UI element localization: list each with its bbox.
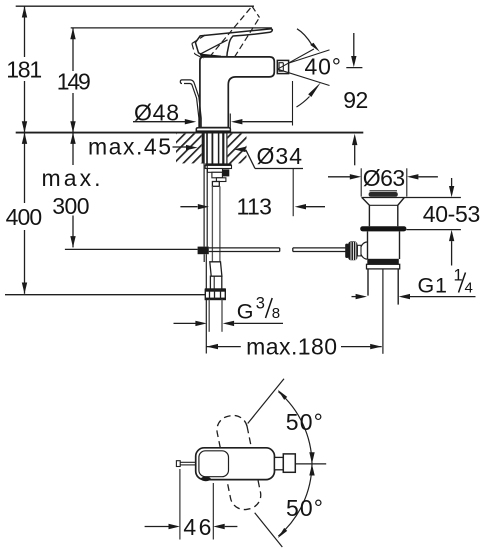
50deg lower arc + arrows	[278, 464, 312, 536]
G3/8 dimension arrows	[174, 322, 197, 324]
max.300 bottom arrow	[70, 236, 75, 247]
svg-text:G1: G1	[418, 273, 448, 297]
113 right extension line (spout tip projection)	[292, 81, 294, 126]
pop-up rod below deck	[203, 133, 205, 247]
40 degree lower arc + arrow	[297, 97, 310, 108]
dimension 46	[179, 469, 181, 540]
50deg upper ray	[248, 379, 284, 424]
40 degree upper arc + arrow	[297, 29, 312, 45]
top reference line (181 level)	[16, 5, 254, 7]
dark blob at body bottom-left	[201, 477, 211, 482]
40-53 lower reference line	[406, 229, 461, 231]
cross fitting on rod	[198, 247, 209, 255]
400 top arrow (up onto deck)	[22, 133, 27, 144]
svg-text:149: 149	[57, 69, 91, 95]
drain body below gasket	[367, 231, 369, 259]
svg-text:4: 4	[465, 280, 473, 297]
deck / mounting surface line	[16, 132, 364, 134]
dimension 181 vertical line	[24, 6, 26, 57]
dimension 149 vertical line	[72, 28, 74, 71]
149 top arrow	[70, 28, 75, 39]
pop-up rod top view	[176, 461, 180, 467]
dashed lever (raised position)	[192, 6, 260, 58]
svg-text:40°: 40°	[305, 54, 342, 80]
G3/8 nut	[205, 289, 225, 299]
drain neck trapezoid	[362, 198, 404, 227]
dimension 92	[346, 67, 362, 69]
spout block	[277, 60, 288, 73]
neck to spout	[275, 457, 284, 469]
svg-text:92: 92	[343, 87, 368, 113]
drain gasket (black)	[360, 226, 406, 231]
top-view body	[196, 448, 275, 480]
ball joint bulge on drain wall	[360, 242, 367, 259]
dimension max.300 vertical line	[72, 133, 74, 165]
svg-text:181: 181	[6, 56, 42, 82]
181 top arrow	[22, 6, 27, 17]
max.45 leader arrow	[186, 145, 198, 150]
149 bottom arrow	[70, 121, 75, 132]
50deg lower ray	[255, 513, 283, 547]
inner contour	[199, 451, 229, 477]
svg-text:40-53: 40-53	[423, 201, 481, 227]
G1 1/4 dimension arrows	[352, 296, 357, 298]
dimension 40-53	[451, 178, 453, 186]
svg-text:Ø63: Ø63	[363, 165, 406, 191]
svg-text:1: 1	[454, 267, 463, 285]
shank threaded bars between deck	[203, 133, 227, 164]
svg-text:max.45: max.45	[88, 134, 171, 160]
faucet body outline	[200, 57, 274, 128]
hatched deck section left of shank	[176, 134, 202, 164]
rod tail below cross / extension to max.180	[205, 254, 207, 353]
drain flange top line + 40-53 upper reference	[361, 197, 461, 199]
hatched deck section right of shank	[228, 134, 247, 164]
nut and washer below deck	[205, 163, 231, 165]
lever grip ridge line	[201, 40, 228, 54]
400 bottom arrow	[22, 283, 27, 294]
hose connector	[210, 276, 221, 289]
Ø48 right extension line	[229, 114, 231, 133]
svg-text:max.: max.	[42, 165, 101, 191]
lever base dark accent	[200, 54, 222, 58]
lever handle (solid)	[195, 29, 272, 57]
dimension 400 vertical line	[24, 133, 26, 203]
horizontal pop-up linkage rod	[209, 248, 348, 252]
supply pipe below nut	[208, 300, 210, 332]
max.300 bottom reference line (rod level)	[65, 248, 198, 250]
svg-text:400: 400	[6, 204, 43, 230]
50deg upper arc + arrows	[278, 392, 312, 464]
drain tail pipe	[367, 269, 369, 296]
svg-text:8: 8	[272, 305, 280, 322]
dashed swung body	[214, 413, 263, 512]
diameter63 extension lines	[360, 168, 362, 196]
max.180 right extension line	[382, 266, 384, 354]
dimension diameter63	[328, 176, 350, 178]
400 bottom reference line	[5, 294, 205, 296]
drain plug cap	[370, 190, 398, 192]
dimension 113	[180, 206, 197, 208]
181 bottom arrow (down onto deck)	[22, 121, 27, 132]
max.300 top arrow (up onto deck)	[70, 133, 75, 144]
hose elbow piece	[210, 262, 222, 276]
spout inner bracket	[279, 63, 283, 71]
drain bottom ring	[367, 259, 399, 265]
stepped connector cascade	[207, 169, 222, 173]
dimension max.180	[206, 346, 241, 348]
svg-text:Ø34: Ø34	[257, 143, 303, 169]
drain knob (knurled, dark)	[348, 241, 357, 260]
svg-text:max.180: max.180	[246, 334, 337, 360]
svg-text:46: 46	[183, 514, 211, 540]
svg-text:50°: 50°	[286, 409, 323, 435]
second reference line (149 level / lever tip)	[71, 27, 272, 29]
svg-text:3: 3	[256, 295, 265, 313]
svg-text:50°: 50°	[286, 495, 323, 521]
svg-text:300: 300	[52, 193, 89, 219]
supply hose below deck	[211, 186, 213, 261]
40 degree rays from spout	[278, 49, 314, 69]
svg-text:G: G	[237, 299, 254, 323]
centerline	[295, 463, 326, 465]
svg-text:113: 113	[236, 194, 272, 220]
faucet base flange	[196, 128, 230, 133]
pop-up rod above deck	[180, 80, 201, 128]
spout block top view	[283, 454, 295, 472]
